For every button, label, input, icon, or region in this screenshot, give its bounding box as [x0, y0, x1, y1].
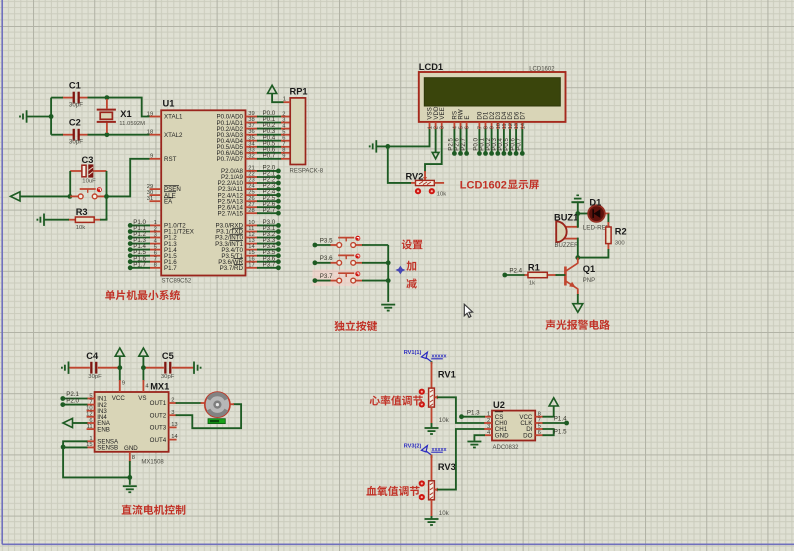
pin 28 P2.7 U1 + stub node [246, 212, 259, 214]
power arrow down (VDD) [432, 152, 439, 158]
node VSS/RV2 junction [385, 144, 390, 149]
wire P3.6 to button [315, 262, 331, 264]
svg-text:8: 8 [154, 263, 157, 269]
svg-text:16: 16 [248, 256, 254, 262]
node bus P3.7 [386, 278, 391, 283]
svg-text:P1.7: P1.7 [164, 265, 177, 272]
wire probe to RV3 [431, 455, 433, 458]
svg-text:23: 23 [248, 178, 254, 184]
pin 15 P3.5 U1 + stub node [246, 255, 259, 257]
LCD screen [424, 78, 560, 106]
svg-text:36: 36 [248, 129, 254, 135]
svg-text:7: 7 [89, 399, 92, 405]
pin 36 P0.3/AD3 U1 + wire to RP1 [246, 134, 259, 136]
svg-text:3: 3 [487, 424, 490, 430]
svg-text:P1.7: P1.7 [133, 261, 146, 268]
push-button P3.5 [331, 244, 337, 246]
svg-text:1: 1 [89, 436, 92, 442]
label 设置 [402, 239, 423, 249]
pin 2 P1.1 U1 + wire + node [150, 231, 162, 233]
pin 8 VCC U2 [535, 416, 543, 418]
pin 13 OUT3 MX1 [169, 426, 177, 428]
node reset left junction [68, 194, 73, 199]
svg-text:D1: D1 [589, 197, 601, 207]
wire/node P0.5 under LCD [509, 129, 511, 153]
svg-text:RV3: RV3 [438, 462, 456, 472]
wire ground to C1/C2 vertical [27, 116, 51, 118]
pin 13 D6 LCD1 [515, 122, 517, 130]
wire BUZ1 bottom to junction [577, 238, 579, 258]
pin 2 VDD LCD1 [435, 122, 437, 130]
pin 24 P2.3 U1 + stub node [246, 188, 259, 190]
svg-text:10k: 10k [76, 225, 86, 231]
pin 11 P3.1 U1 + stub node [246, 231, 259, 233]
wire arrow to reset button [20, 195, 70, 197]
svg-text:18: 18 [147, 130, 153, 136]
pin 9 VCC MX1 [119, 380, 121, 392]
svg-text:19: 19 [147, 111, 153, 117]
resistor pack RP1 [290, 98, 305, 165]
label 心率值调节 [370, 395, 423, 405]
capacitor C1 [62, 97, 73, 99]
svg-text:C3: C3 [82, 155, 94, 165]
svg-text:10: 10 [248, 220, 254, 226]
svg-text:P2.4: P2.4 [509, 268, 522, 275]
svg-text:P2.7: P2.7 [263, 207, 276, 214]
wire C2 to XTAL2 [88, 134, 150, 136]
node X1 bottom junction [105, 132, 110, 137]
svg-text:9: 9 [490, 126, 496, 129]
crystal X1 [106, 99, 108, 109]
wire RV3 bottom to gnd [431, 516, 433, 520]
pin 4 GND U2 [484, 434, 492, 436]
svg-text:1: 1 [487, 412, 490, 418]
svg-text:OUT4: OUT4 [150, 437, 167, 444]
svg-text:8: 8 [484, 126, 490, 129]
label 直流电机控制 [122, 505, 186, 515]
wire/node P0.4 under LCD [503, 129, 505, 153]
svg-text:31: 31 [147, 196, 153, 202]
svg-text:C2: C2 [69, 118, 81, 128]
node P2.1 terminal [60, 396, 65, 401]
buzzer BUZ1 [564, 226, 578, 228]
svg-text:Q1: Q1 [583, 264, 595, 274]
pin 12 IN4 MX1 [87, 416, 95, 418]
svg-text:6: 6 [538, 430, 541, 436]
svg-text:9: 9 [282, 154, 285, 160]
ground (left of C1/C2) [20, 110, 27, 122]
label 单片机最小系统 [105, 290, 180, 300]
svg-text:8: 8 [282, 148, 285, 154]
svg-text:32: 32 [248, 153, 254, 159]
pin 14 P3.4 U1 + stub node [246, 249, 259, 251]
pin 21 P2.0 U1 + stub node [246, 170, 259, 172]
pin 13 P3.3 U1 + stub node [246, 243, 259, 245]
svg-text:300: 300 [615, 241, 626, 247]
origin marker (blue) [395, 266, 405, 275]
pin 15 SENSB MX1 [87, 446, 95, 448]
svg-text:SENSB: SENSB [97, 445, 118, 452]
wire VS arrow down [142, 357, 144, 382]
svg-text:RV2: RV2 [406, 171, 424, 181]
svg-text:LCD1602: LCD1602 [460, 179, 507, 191]
label 血氧值调节 [366, 486, 419, 496]
svg-text:P3.7/RD: P3.7/RD [220, 265, 244, 272]
pin 7 D0 LCD1 [478, 122, 480, 130]
capacitor C2 [62, 134, 73, 136]
svg-text:R3: R3 [76, 207, 88, 217]
pin 10 P3.0 U1 + stub node [246, 224, 259, 226]
node D1/BUZ1 junction [575, 211, 580, 216]
svg-text:30: 30 [147, 190, 153, 196]
node P3.5 button terminal [313, 243, 318, 248]
svg-text:3: 3 [154, 232, 157, 238]
wire P2.4 to R1 [505, 274, 525, 276]
wire C1 to XTAL1 [88, 98, 150, 117]
node C1/C2 gnd junction [49, 114, 54, 119]
svg-text:11: 11 [502, 123, 508, 129]
wire button P3.5 to bus [362, 244, 388, 246]
pin 6 P1.5 U1 + wire + node [150, 255, 162, 257]
label 减 [406, 278, 416, 288]
wire GND down [129, 461, 131, 485]
wire RV3 wiper to CH1 [437, 429, 485, 490]
pin 3 OUT2 MX1 [169, 414, 177, 416]
pin 6 E LCD1 [466, 122, 468, 130]
svg-text:3: 3 [171, 410, 174, 416]
svg-text:2: 2 [434, 126, 440, 129]
pin 23 P2.2 U1 + stub node [246, 182, 259, 184]
wire/node P0.6 under LCD [515, 129, 517, 153]
svg-text:13: 13 [171, 422, 177, 428]
wire VCC arrow down [119, 357, 121, 382]
ground (left of R3) [37, 214, 44, 226]
wire R3 to reset net [100, 218, 107, 220]
pin 34 P0.5/AD5 U1 + wire to RP1 [246, 146, 259, 148]
svg-text:3: 3 [440, 126, 446, 129]
svg-text:RV1(1): RV1(1) [404, 350, 422, 356]
svg-text:6: 6 [89, 418, 92, 424]
svg-text:ENB: ENB [97, 426, 110, 433]
ground RV3 [425, 519, 439, 525]
power arrow (VS MX1) [139, 348, 148, 356]
pin 12 P3.2 U1 + stub node [246, 237, 259, 239]
svg-text:15: 15 [248, 250, 254, 256]
svg-text:OUT2: OUT2 [150, 412, 167, 419]
pin 38 P0.1/AD1 U1 + wire to RP1 [246, 122, 259, 124]
pin 14 OUT4 MX1 [169, 439, 177, 441]
svg-text:RP1: RP1 [290, 87, 308, 97]
wire/node P0.7 under LCD [521, 129, 523, 153]
svg-text:U1: U1 [163, 99, 175, 109]
pin 9 RST U1 [150, 158, 162, 160]
svg-text:PNP: PNP [583, 278, 595, 284]
wire CLK to P1.4 [543, 422, 567, 424]
wire R2 bottom to junction [578, 249, 609, 258]
svg-text:P2.7: P2.7 [460, 138, 467, 151]
ground RV1 [425, 428, 439, 434]
wire RV1 wiper to CH0 [437, 397, 485, 423]
potentiometer RV3 [431, 455, 433, 481]
node C4/VCC junction [117, 365, 122, 370]
svg-text:34: 34 [248, 141, 255, 147]
node P3.6 button terminal [313, 260, 318, 265]
svg-text:GND: GND [495, 432, 509, 439]
node P1.3 terminal [459, 414, 464, 419]
power arrow (VCC MX1) [115, 348, 124, 356]
svg-text:10k: 10k [437, 191, 447, 197]
pin 3 VEE LCD1 [441, 122, 443, 130]
pin 32 P0.7/AD7 U1 + wire to RP1 [246, 158, 259, 160]
op-amp U1 body (microcontroller STC89C52) [161, 110, 245, 275]
node reset right junction [104, 194, 109, 199]
power arrow above RP1 [268, 85, 277, 93]
resistor R2 [607, 214, 609, 224]
pin 4 VS MX1 [142, 380, 144, 392]
capacitor C4 [69, 367, 90, 369]
power arrow U2 [549, 398, 558, 406]
pin 14 D7 LCD1 [521, 122, 523, 130]
svg-text:10: 10 [496, 123, 502, 129]
wire GND U2 to ground [474, 435, 485, 441]
wire OUT1 to motor [176, 402, 202, 404]
svg-text:X1: X1 [120, 109, 131, 119]
mouse cursor [464, 304, 472, 317]
pin 1 SENSA MX1 [87, 440, 95, 442]
capacitor C3 (10uF electrolytic) [70, 170, 82, 172]
svg-text:P1.4: P1.4 [554, 416, 567, 423]
pin 4 P1.3 U1 + wire + node [150, 243, 162, 245]
pin 26 P2.5 U1 + stub node [246, 200, 259, 202]
wire Q1 collector to ground arrow [577, 294, 579, 304]
pin 6 ENA MX1 [87, 422, 95, 424]
svg-text:RESPACK-8: RESPACK-8 [290, 169, 324, 175]
svg-text:RST: RST [164, 156, 177, 163]
svg-text:38: 38 [248, 117, 254, 123]
wire RP1 pin1 to power [272, 94, 283, 103]
svg-text:DO: DO [523, 432, 532, 439]
svg-text:GND: GND [124, 445, 138, 452]
svg-text:7: 7 [154, 257, 157, 263]
svg-text:R2: R2 [615, 226, 627, 236]
LED D1 [578, 213, 590, 215]
svg-text:5: 5 [538, 424, 541, 430]
potentiometer RV1 [431, 362, 433, 388]
pin 2 CH0 U2 [484, 422, 492, 424]
wire SENSB [63, 446, 87, 448]
wire P2.0 to IN2 [63, 404, 88, 406]
transistor Q1 PNP [564, 267, 567, 286]
node GND junction [127, 475, 132, 480]
wire DI-DO to P1.5 [543, 429, 554, 435]
wire/node P2.7 under LCD [466, 129, 468, 153]
wire C1 left [51, 97, 63, 99]
wire C3 left down [69, 171, 71, 196]
sheet border bottom [2, 543, 794, 545]
svg-text:E: E [464, 115, 471, 119]
wire button P3.6 to bus [362, 262, 388, 264]
svg-text:9: 9 [150, 154, 153, 160]
pin 1 CS U2 [484, 416, 492, 418]
resistor R3 [68, 219, 75, 221]
wire R1 to Q1 base [556, 274, 566, 276]
svg-text:RV1: RV1 [438, 369, 456, 379]
pin 37 P0.2/AD2 U1 + wire to RP1 [246, 128, 259, 130]
svg-text:14: 14 [520, 123, 526, 129]
RV2 actuator buttons [415, 188, 421, 194]
pin 30 ALE U1 [150, 194, 162, 196]
svg-text:10uF: 10uF [82, 178, 96, 184]
svg-text:7: 7 [477, 126, 483, 129]
power bars (alarm VCC) [571, 195, 584, 202]
pin 10 IN3 MX1 [87, 410, 95, 412]
node P3.7 button terminal [313, 278, 318, 283]
pin 11 D4 LCD1 [503, 122, 505, 130]
pin 3 P1.2 U1 + wire + node [150, 237, 162, 239]
power arrow (left, ENA) [63, 418, 73, 427]
svg-text:P3.5: P3.5 [320, 237, 333, 244]
wire/node P0.1 under LCD [485, 129, 487, 153]
pin 9 D2 LCD1 [491, 122, 493, 130]
svg-text:1k: 1k [529, 280, 535, 286]
svg-text:P3.7: P3.7 [320, 273, 333, 280]
svg-text:P2.7/A15: P2.7/A15 [218, 210, 244, 217]
svg-text:5: 5 [89, 393, 92, 399]
svg-text:13: 13 [514, 123, 520, 129]
wire button P3.7 to bus [362, 280, 388, 282]
power arrow (left, reset net) [11, 192, 21, 201]
svg-text:10k: 10k [439, 417, 450, 424]
pin 4 RS LCD1 [453, 122, 455, 130]
wire/node P2.5 under LCD [453, 129, 455, 153]
label 独立按键 [334, 321, 377, 331]
motor driver MX1 body [95, 392, 169, 452]
pin 5 IN1 MX1 [87, 398, 95, 400]
pin 8 P1.7 U1 + wire + node [150, 267, 162, 269]
svg-text:BUZ1: BUZ1 [554, 213, 578, 223]
svg-text:RV3(2): RV3(2) [404, 444, 422, 450]
wire buttons bus [387, 245, 389, 302]
ground buttons bus [381, 305, 395, 311]
svg-text:17: 17 [248, 262, 254, 268]
pin 29 PSEN U1 [150, 188, 162, 190]
node bus P3.6 [386, 260, 391, 265]
pin 1 RP1 [284, 101, 291, 103]
svg-text:D7: D7 [520, 111, 527, 119]
svg-text:8: 8 [132, 455, 135, 461]
svg-text:4: 4 [452, 126, 458, 129]
svg-text:6: 6 [282, 136, 285, 142]
pin 31 EA U1 [150, 200, 162, 202]
pin 19 XTAL1 U1 [150, 116, 162, 118]
pin 8 GND MX1 [129, 452, 131, 462]
pin 2 OUT1 MX1 [169, 402, 177, 404]
pin 22 P2.1 U1 + stub node [246, 176, 259, 178]
label 加 [406, 261, 416, 271]
svg-text:C5: C5 [162, 351, 174, 361]
node X1 top junction [105, 95, 110, 100]
svg-text:P3.6: P3.6 [320, 255, 333, 262]
svg-text:EA: EA [164, 198, 173, 205]
wire C3 right down to R3 [106, 171, 108, 220]
wire P3.5 to button [315, 244, 331, 246]
ground (left of C4) [62, 362, 69, 374]
svg-text:P2.0: P2.0 [66, 397, 79, 404]
svg-text:1: 1 [154, 220, 157, 226]
svg-text:1: 1 [428, 126, 434, 129]
pin 11 ENB MX1 [87, 428, 95, 430]
pin 7 IN2 MX1 [87, 404, 95, 406]
svg-text:P0.7: P0.7 [516, 138, 523, 151]
svg-text:25: 25 [248, 190, 254, 196]
svg-text:8: 8 [538, 411, 541, 417]
svg-text:LCD1602: LCD1602 [529, 67, 555, 73]
svg-text:6: 6 [465, 126, 471, 129]
pin 1 VSS LCD1 [429, 122, 431, 130]
svg-text:3: 3 [282, 117, 285, 123]
svg-text:XTAL2: XTAL2 [164, 132, 183, 139]
node Q1 emitter junction [575, 255, 580, 260]
svg-text:10k: 10k [439, 510, 450, 517]
ground (right of C5) [194, 362, 201, 374]
svg-text:LCD1: LCD1 [419, 62, 443, 72]
wire/node P2.6 under LCD [460, 129, 462, 153]
pin 7 P1.6 U1 + wire + node [150, 261, 162, 263]
motor MX (DC motor) [201, 402, 206, 404]
motor speed tag [208, 419, 225, 424]
wire gnd to R3 [44, 219, 69, 221]
svg-text:P0.7/AD7: P0.7/AD7 [217, 156, 244, 163]
pin 8 D1 LCD1 [485, 122, 487, 130]
svg-text:P0.7: P0.7 [263, 152, 276, 159]
sheet border left [1, 0, 3, 544]
pin 7 CLK U2 [535, 422, 543, 424]
push-button P3.7 [331, 280, 337, 282]
svg-text:VCC: VCC [112, 395, 126, 402]
pin 25 P2.4 U1 + stub node [246, 194, 259, 196]
node P2.4 terminal [502, 273, 507, 278]
pin 39 P0.0/AD0 U1 + wire to RP1 [246, 116, 259, 118]
pin 17 P3.7 U1 + stub node [246, 267, 259, 269]
highlight box around P3.7 button [313, 270, 360, 287]
pin 18 XTAL2 U1 [150, 134, 162, 136]
pin 16 P3.6 U1 + stub node [246, 261, 259, 263]
svg-text:14: 14 [171, 434, 178, 440]
resistor R1 [524, 274, 529, 276]
svg-text:P1.3: P1.3 [467, 409, 480, 416]
svg-text:2: 2 [171, 398, 174, 404]
svg-text:5: 5 [459, 126, 465, 129]
ground (left of LCD) [370, 140, 377, 152]
wire arrow to ENA [73, 422, 88, 424]
wire power to D1 junction [577, 203, 579, 227]
potentiometer RV2 [424, 171, 426, 180]
svg-text:28: 28 [248, 208, 254, 214]
svg-text:MX1: MX1 [150, 382, 169, 392]
svg-text:C1: C1 [69, 81, 81, 91]
svg-text:VEE: VEE [439, 107, 446, 119]
svg-text:21: 21 [248, 166, 254, 172]
wire P3.7 to button [315, 280, 331, 282]
svg-text:30pF: 30pF [69, 139, 83, 146]
node P1.4 terminal [564, 421, 569, 426]
svg-text:10: 10 [86, 406, 92, 412]
pin 12 D5 LCD1 [509, 122, 511, 130]
svg-text:11: 11 [87, 424, 93, 430]
wire RV2 left to VSS junction [388, 146, 411, 183]
wire OUT2 to motor loop [176, 404, 242, 428]
svg-text:R1: R1 [528, 262, 540, 272]
